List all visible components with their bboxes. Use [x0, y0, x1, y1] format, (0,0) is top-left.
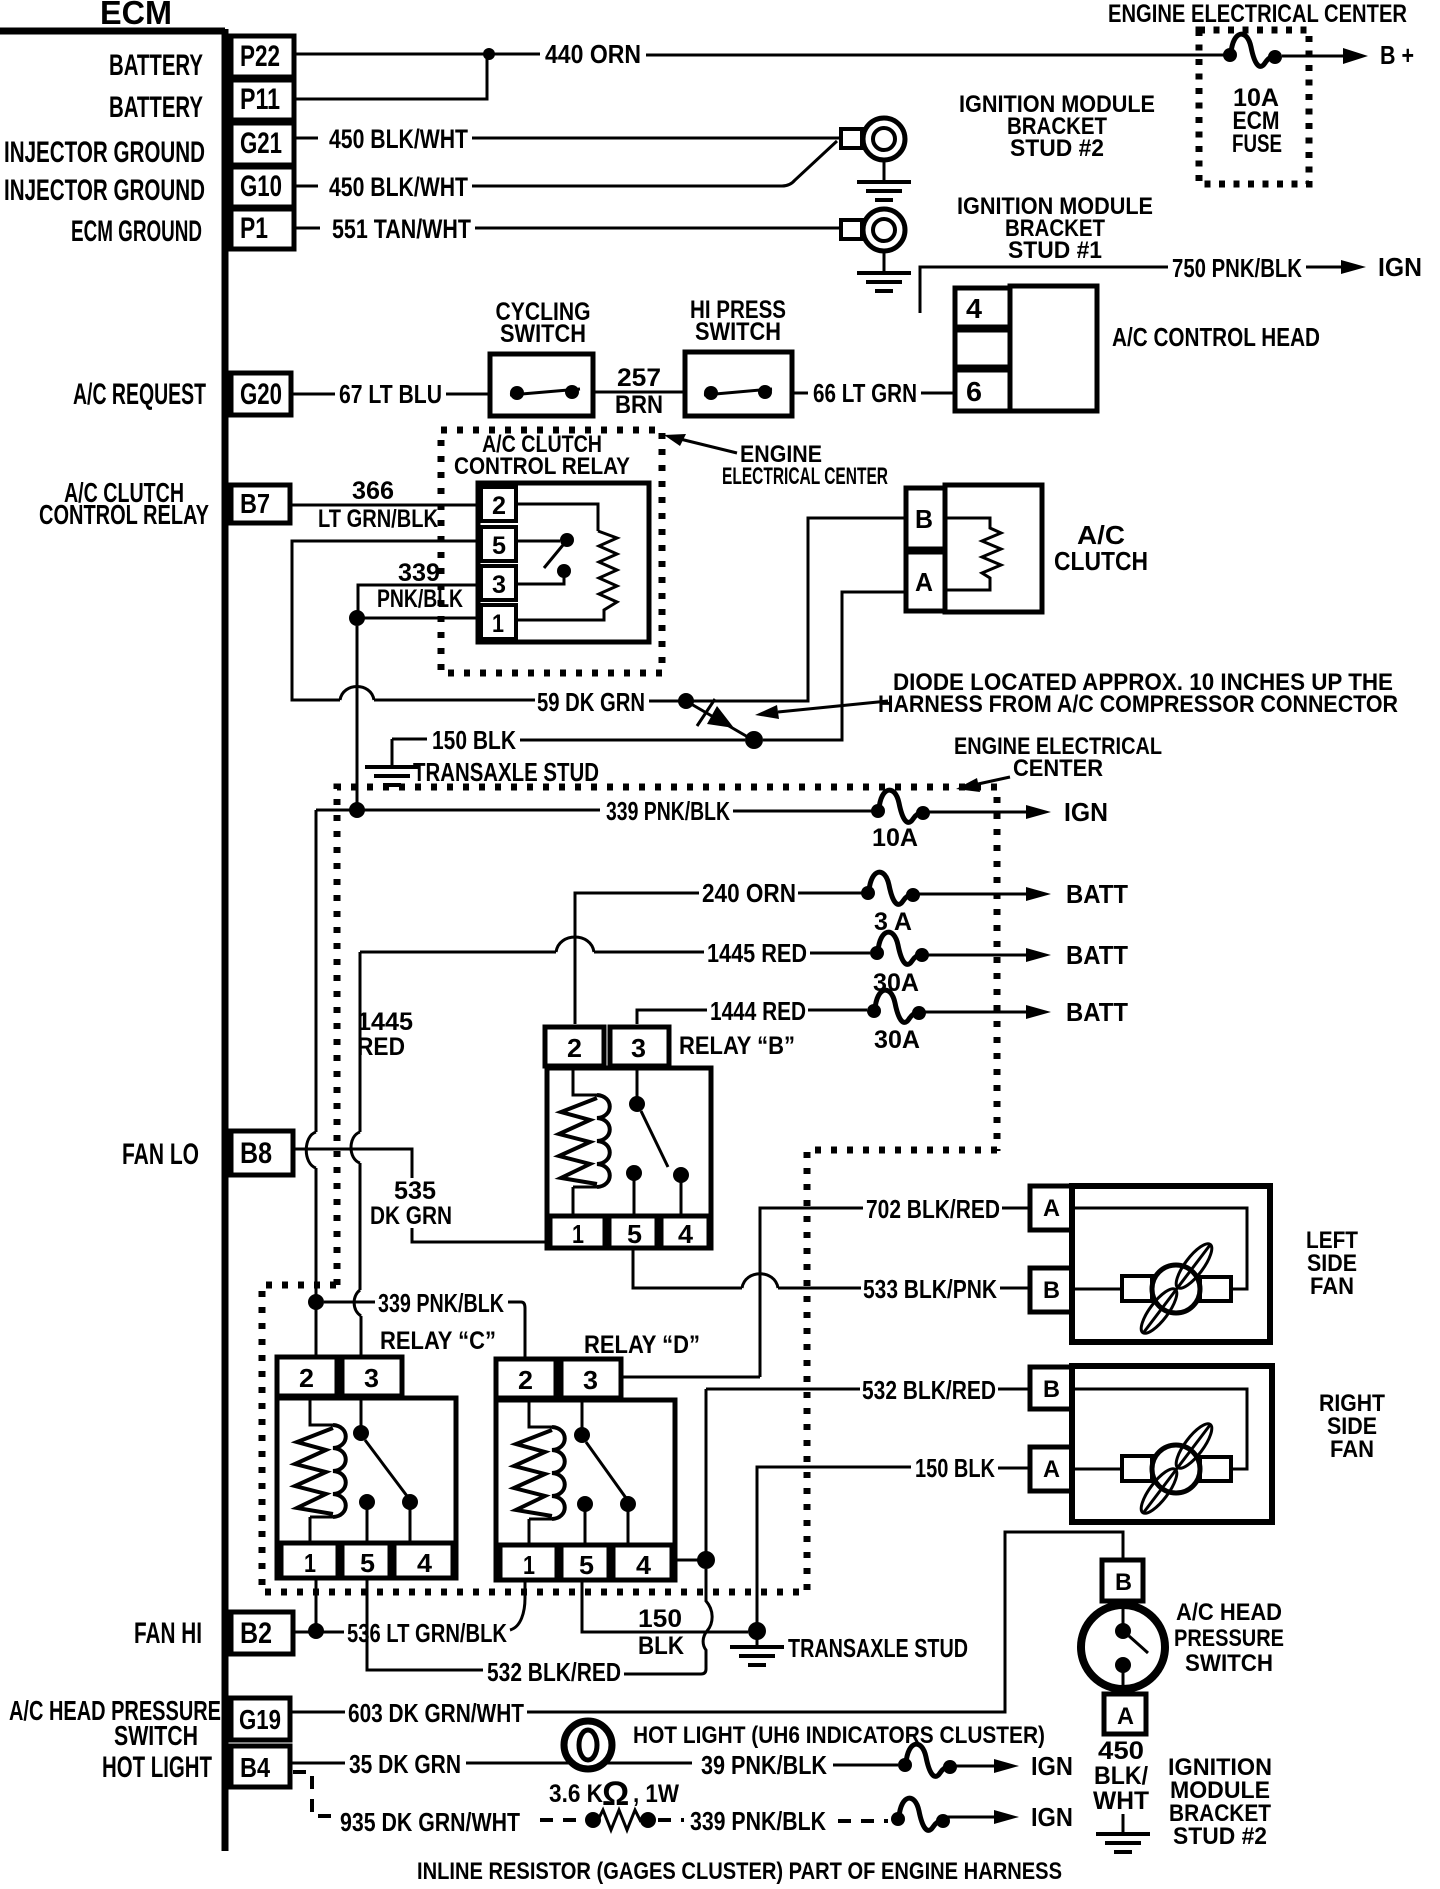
cycling switch [490, 354, 593, 416]
wire 532 BLK/RED lower (relay C terminal 5) [367, 1578, 483, 1670]
ground at stud #1 [883, 251, 886, 272]
svg-text:RELAY “D”: RELAY “D” [584, 1331, 700, 1359]
svg-text:FUSE: FUSE [1232, 130, 1282, 158]
wire B8 FAN LO to 535 DK GRN [293, 1149, 548, 1242]
node 59 DK GRN / diode [678, 693, 694, 709]
svg-text:4: 4 [678, 1219, 694, 1249]
terminal B8 [231, 1131, 293, 1175]
arrow IGN (39) [994, 1759, 1019, 1773]
wire 39 PNK/BLK to fuse [833, 1764, 898, 1767]
svg-text:A: A [1043, 1195, 1060, 1222]
svg-text:240 ORN: 240 ORN [702, 878, 796, 908]
fuse 3A (240) [861, 872, 920, 904]
relay coil (zigzag) [516, 504, 617, 620]
svg-text:CONTROL RELAY: CONTROL RELAY [39, 499, 209, 530]
arrow to dotted box corner [978, 777, 1010, 784]
svg-text:B2: B2 [240, 1617, 272, 1650]
svg-text:G20: G20 [240, 378, 282, 411]
relay switch contacts [516, 540, 560, 543]
annotation diode note arrow [778, 701, 888, 712]
wire 440 ORN from P22 [294, 54, 1227, 55]
relay C terminal 5 [342, 1543, 390, 1578]
relay D terminal 5 [561, 1545, 609, 1580]
relay B switch [636, 1066, 639, 1097]
terminal G20 [231, 373, 291, 415]
wire 339 node to relay C terminal 2 [315, 1308, 318, 1357]
svg-text:TRANSAXLE STUD: TRANSAXLE STUD [413, 757, 599, 787]
svg-text:2: 2 [567, 1033, 582, 1063]
relay B terminal 1 [550, 1216, 605, 1248]
svg-text:B4: B4 [240, 1752, 270, 1783]
fuse (339 dashed) [891, 1798, 950, 1830]
jog (1445 vertical at 339 wire) [354, 1290, 361, 1316]
svg-text:P22: P22 [240, 40, 280, 73]
ring terminal stud #1 [841, 209, 905, 251]
wire 339 vertical to relays C/D [315, 810, 318, 1296]
svg-text:INJECTOR GROUND: INJECTOR GROUND [4, 136, 205, 169]
svg-text:440 ORN: 440 ORN [545, 39, 641, 69]
wire 339 PNK/BLK to fuse [316, 810, 872, 811]
relay B body [547, 1068, 711, 1248]
fuse 30A (1445) [870, 932, 929, 964]
relay B coil [573, 1066, 597, 1216]
relay D coil [529, 1398, 552, 1545]
node transaxle stud junction [748, 1622, 766, 1640]
svg-text:5: 5 [627, 1219, 642, 1249]
wire 1444 RED [637, 1010, 867, 1024]
svg-text:BATT: BATT [1066, 940, 1128, 970]
svg-text:150 BLK: 150 BLK [432, 725, 516, 755]
relay C terminal 3 [342, 1357, 402, 1396]
fuse (39 PNK/BLK) [898, 1744, 957, 1776]
left fan body [1072, 1186, 1270, 1342]
terminal P22 [231, 36, 294, 77]
hot light lamp [564, 1721, 612, 1769]
svg-text:B: B [1043, 1277, 1060, 1304]
svg-text:A/C REQUEST: A/C REQUEST [73, 378, 206, 411]
svg-text:BATT: BATT [1066, 879, 1128, 909]
ECM connector rail (top bar + vertical) [0, 29, 225, 1851]
svg-text:, 1W: , 1W [633, 1780, 679, 1808]
wire 551 TAN/WHT from P1 [294, 227, 841, 230]
svg-text:ECM: ECM [100, 0, 172, 31]
wire fuse to IGN (339 dashed) [947, 1816, 995, 1819]
fuse 10A (339) [871, 790, 930, 822]
svg-text:1: 1 [523, 1550, 535, 1580]
wire 450 BLK/WHT from G10 [294, 141, 837, 186]
right fan motor [1122, 1419, 1231, 1518]
left fan internal wires [1072, 1208, 1247, 1289]
hop 59 DK GRN over 339 vertical [340, 687, 374, 701]
left fan connector A [1030, 1186, 1072, 1230]
svg-text:PRESSURE: PRESSURE [1174, 1625, 1284, 1652]
engine electrical center dotted box (ECM fuse) [1199, 30, 1309, 184]
arrow BATT (1445) [1026, 948, 1051, 962]
svg-text:RELAY “B”: RELAY “B” [679, 1032, 795, 1060]
svg-text:257: 257 [617, 364, 661, 392]
svg-text:4: 4 [417, 1548, 433, 1578]
svg-text:750 PNK/BLK: 750 PNK/BLK [1172, 253, 1302, 283]
svg-text:B7: B7 [240, 488, 270, 519]
A/C head pressure switch terminal A [1104, 1694, 1146, 1734]
wire 240 ORN [575, 893, 862, 1024]
A/C clutch connector terminal B [906, 488, 945, 549]
svg-text:A: A [1043, 1456, 1060, 1483]
wire 66 LT GRN [792, 392, 955, 395]
A/C clutch coil [945, 518, 1001, 590]
A/C clutch control relay dotted box [441, 430, 662, 673]
hop arc (1445 vertical at B8 wire) [351, 1132, 360, 1163]
wire relay D terminal 3 to 702 vertical [621, 1376, 760, 1379]
svg-text:150 BLK: 150 BLK [915, 1453, 995, 1483]
svg-text:CENTER: CENTER [1013, 755, 1103, 782]
svg-text:5: 5 [492, 532, 506, 560]
ground at stud #2 [883, 160, 886, 181]
svg-text:35 DK GRN: 35 DK GRN [349, 1749, 461, 1779]
svg-text:3: 3 [631, 1033, 646, 1063]
A/C control head body [1010, 286, 1097, 411]
relay terminal 5 [481, 527, 516, 561]
svg-text:SWITCH: SWITCH [500, 320, 586, 348]
A/C clutch control relay body [478, 483, 649, 642]
svg-text:FAN: FAN [1310, 1273, 1354, 1300]
terminal G10 [231, 167, 294, 207]
A/C control head middle cavity [955, 330, 1010, 367]
hop 1445 over 240 vertical [556, 937, 594, 952]
wire 150 BLK from relay D terminal 5 [582, 1580, 748, 1632]
svg-text:66 LT GRN: 66 LT GRN [813, 378, 917, 408]
wire fuse to BATT (240) [917, 893, 1026, 896]
svg-text:450: 450 [1098, 1737, 1144, 1765]
node 339 PNK/BLK junction [349, 802, 365, 818]
svg-text:450 BLK/WHT: 450 BLK/WHT [329, 124, 468, 154]
svg-text:533 BLK/PNK: 533 BLK/PNK [863, 1274, 997, 1304]
svg-text:67 LT BLU: 67 LT BLU [339, 379, 442, 409]
svg-text:5: 5 [579, 1550, 594, 1580]
svg-text:551 TAN/WHT: 551 TAN/WHT [332, 214, 471, 244]
A/C clutch body [945, 485, 1042, 612]
svg-text:FAN LO: FAN LO [122, 1138, 199, 1171]
svg-text:TRANSAXLE STUD: TRANSAXLE STUD [788, 1633, 968, 1663]
relay C body [277, 1398, 456, 1578]
svg-text:B: B [1115, 1569, 1132, 1596]
svg-text:RED: RED [357, 1033, 405, 1061]
relay B terminal 4 [661, 1216, 709, 1248]
svg-text:G10: G10 [240, 170, 282, 203]
node diode/150 BLK [745, 731, 763, 749]
svg-text:HARNESS FROM A/C COMPRESSOR CO: HARNESS FROM A/C COMPRESSOR CONNECTOR [878, 691, 1398, 718]
terminal B2 [231, 1612, 293, 1654]
relay terminal 1 [481, 605, 516, 639]
svg-text:150: 150 [638, 1605, 682, 1633]
svg-text:RELAY “C”: RELAY “C” [380, 1327, 496, 1355]
svg-text:702 BLK/RED: 702 BLK/RED [866, 1194, 1000, 1224]
svg-text:536 LT GRN/BLK: 536 LT GRN/BLK [347, 1618, 507, 1648]
svg-text:P1: P1 [240, 212, 268, 245]
ground at pressure switch [1122, 1814, 1125, 1833]
relay D terminal 4 [613, 1545, 672, 1580]
relay terminal 2 [481, 487, 516, 521]
label 535 DK GRN [368, 1177, 452, 1230]
wire terminal 5 to 59 DK GRN [292, 541, 681, 701]
relay terminal 3 [481, 566, 516, 600]
inline resistor 3.6k [540, 1810, 684, 1830]
relay D terminal 1 [500, 1545, 557, 1580]
wire 257 BRN [593, 391, 685, 394]
arrow IGN (339 dashed) [994, 1810, 1019, 1824]
svg-text:2: 2 [492, 492, 506, 520]
wire 702 BLK/RED [760, 1208, 1029, 1377]
svg-text:532 BLK/RED: 532 BLK/RED [862, 1375, 996, 1405]
svg-text:1444 RED: 1444 RED [710, 996, 806, 1026]
svg-text:P11: P11 [240, 83, 280, 116]
hop 533 over 702 vertical [742, 1274, 778, 1288]
wire fuse to BATT (1445) [926, 954, 1026, 957]
svg-text:3.6 K: 3.6 K [549, 1780, 603, 1808]
relay C switch [360, 1396, 363, 1426]
svg-text:4: 4 [636, 1550, 652, 1580]
svg-text:3: 3 [364, 1363, 379, 1393]
right fan body [1072, 1366, 1272, 1522]
hop arcs on B8 wire (339 vertical) [306, 1132, 316, 1168]
wire 339 PNK/BLK lower row [324, 1302, 525, 1357]
ring terminal stud #2 [841, 118, 905, 160]
svg-text:366: 366 [352, 477, 394, 505]
A/C head pressure switch [1081, 1601, 1165, 1694]
node 339 lower junction [308, 1294, 324, 1310]
svg-text:LT GRN/BLK: LT GRN/BLK [318, 505, 438, 533]
svg-text:ENGINE ELECTRICAL CENTER: ENGINE ELECTRICAL CENTER [1108, 0, 1407, 28]
svg-text:FAN HI: FAN HI [134, 1617, 202, 1650]
svg-text:B: B [1043, 1376, 1060, 1403]
right fan connector B [1030, 1367, 1072, 1409]
svg-text:BLK: BLK [638, 1632, 684, 1660]
wire 1445 RED vertical [360, 952, 361, 1356]
A/C control head terminal 4 [955, 288, 1010, 327]
hi press switch [685, 352, 792, 416]
svg-text:WHT: WHT [1093, 1787, 1149, 1815]
svg-text:603 DK GRN/WHT: 603 DK GRN/WHT [348, 1698, 524, 1728]
svg-text:IGN: IGN [1378, 252, 1422, 282]
svg-text:FAN: FAN [1330, 1436, 1374, 1463]
svg-text:G19: G19 [239, 1704, 281, 1735]
svg-text:STUD #1: STUD #1 [1008, 237, 1102, 264]
svg-text:6: 6 [966, 376, 982, 407]
svg-text:STUD #2: STUD #2 [1173, 1823, 1267, 1850]
svg-text:PNK/BLK: PNK/BLK [377, 585, 463, 613]
arrow BATT (1444) [1026, 1005, 1051, 1019]
terminal P1 [231, 209, 294, 249]
wire fuse to IGN (39) [954, 1765, 995, 1768]
wire 339 node down to junction [356, 626, 359, 803]
svg-text:30A: 30A [874, 1026, 920, 1054]
svg-text:CLUTCH: CLUTCH [1054, 546, 1148, 576]
relay B terminal 3 [610, 1027, 669, 1066]
wire fuse to BATT (1444) [923, 1011, 1026, 1014]
svg-text:SWITCH: SWITCH [114, 1720, 198, 1751]
svg-text:BRN: BRN [615, 391, 663, 419]
svg-text:ELECTRICAL CENTER: ELECTRICAL CENTER [722, 463, 888, 490]
wire 150 BLK (right fan A) [757, 1467, 1030, 1628]
relay D terminal 2 [496, 1359, 556, 1398]
right fan connector A [1030, 1447, 1072, 1491]
svg-text:450 BLK/WHT: 450 BLK/WHT [329, 172, 468, 202]
wire 533 BLK/PNK [633, 1248, 1029, 1288]
wire fuse to IGN [927, 811, 1026, 814]
wire 59 DK GRN to A/C clutch B [693, 518, 904, 701]
wire 532 BLK/RED (right fan B) [706, 1389, 1030, 1560]
svg-text:59 DK GRN: 59 DK GRN [537, 687, 645, 717]
left fan connector B [1030, 1268, 1072, 1312]
svg-text:935 DK GRN/WHT: 935 DK GRN/WHT [340, 1807, 520, 1837]
wire B2 FAN HI to 536 LT GRN/BLK [293, 1580, 525, 1632]
svg-text:A: A [915, 567, 933, 597]
svg-text:B +: B + [1380, 40, 1414, 70]
svg-text:1: 1 [304, 1548, 316, 1578]
wire 366 LT GRN/BLK from B7 [290, 504, 481, 507]
svg-text:BATTERY: BATTERY [109, 91, 203, 124]
wire G20 67 LT BLU [291, 393, 490, 396]
svg-text:2: 2 [299, 1363, 314, 1393]
wire 35 DK GRN to hot light [290, 1762, 692, 1765]
terminal P11 [231, 80, 294, 120]
svg-text:HOT LIGHT (UH6 INDICATORS CLUS: HOT LIGHT (UH6 INDICATORS CLUSTER) [633, 1722, 1045, 1749]
relay C terminal 4 [394, 1543, 453, 1578]
svg-text:BATTERY: BATTERY [109, 49, 203, 82]
svg-text:535: 535 [394, 1177, 436, 1205]
svg-text:339 PNK/BLK: 339 PNK/BLK [690, 1806, 826, 1836]
wire 450 BLK/WHT from G21 [294, 137, 841, 140]
transaxle stud ground (upper) [391, 739, 394, 766]
relay D body [496, 1400, 675, 1580]
svg-text:IGN: IGN [1064, 797, 1108, 827]
terminal B4 [231, 1746, 290, 1787]
svg-text:1445: 1445 [357, 1008, 413, 1036]
relay C terminal 1 [281, 1543, 338, 1578]
svg-text:339 PNK/BLK: 339 PNK/BLK [606, 796, 730, 826]
A/C head pressure switch terminal B [1102, 1560, 1143, 1601]
svg-text:532 BLK/RED: 532 BLK/RED [487, 1657, 621, 1687]
wire P11 to junction [294, 57, 487, 99]
fuse 30A (1444) [867, 990, 926, 1022]
node B2 junction [308, 1623, 324, 1639]
engine electrical center dotted outline [262, 787, 997, 1592]
terminal G19 [231, 1698, 290, 1740]
svg-text:G21: G21 [240, 127, 282, 160]
svg-text:SWITCH: SWITCH [695, 318, 781, 346]
svg-text:A/C HEAD: A/C HEAD [1176, 1599, 1282, 1626]
arrow B+ [1343, 48, 1368, 64]
svg-text:A: A [1117, 1703, 1134, 1730]
annotation arrow engine electrical center (relay) [676, 438, 737, 453]
A/C clutch connector terminal A [906, 552, 945, 611]
svg-text:IGN: IGN [1031, 1802, 1073, 1832]
node junction P22/P11 [483, 48, 495, 60]
wire node to terminal 1 [357, 617, 478, 620]
svg-text:3: 3 [492, 571, 506, 599]
svg-text:339: 339 [398, 559, 440, 587]
svg-text:HOT LIGHT: HOT LIGHT [102, 1751, 212, 1784]
dashed wire to fuse (339 dashed) [838, 1819, 888, 1823]
relay C terminal 2 [277, 1357, 337, 1396]
svg-text:1: 1 [572, 1219, 584, 1249]
svg-text:3: 3 [583, 1365, 598, 1395]
wire 750 PNK/BLK [920, 267, 1342, 313]
svg-text:A/C CONTROL HEAD: A/C CONTROL HEAD [1112, 322, 1320, 352]
relay B terminal 5 [609, 1216, 657, 1248]
wire 532 node down to lower label [624, 1569, 712, 1674]
relay D terminal 3 [561, 1359, 621, 1398]
wire 1445 RED horizontal [360, 952, 870, 953]
arrow IGN (750) [1341, 260, 1366, 274]
wire relay C terminal 1 to B2 node [315, 1578, 318, 1624]
A/C control head terminal 6 [955, 370, 1010, 411]
svg-text:BLK/: BLK/ [1094, 1762, 1148, 1790]
node 532 junction [697, 1551, 715, 1569]
wire 150 BLK [392, 592, 904, 740]
wire terminal 3 to 339 node [358, 585, 478, 612]
terminal B7 [231, 485, 290, 523]
terminal G21 [231, 123, 294, 165]
svg-text:STUD #2: STUD #2 [1010, 135, 1104, 162]
wire relay D terminal 4 to node [675, 1559, 700, 1562]
svg-text:5: 5 [360, 1548, 375, 1578]
diode 59 DK GRN to 150 BLK [686, 699, 753, 740]
svg-text:2: 2 [518, 1365, 533, 1395]
relay D switch [581, 1398, 584, 1428]
svg-text:BATT: BATT [1066, 997, 1128, 1027]
node 339 PNK/BLK (relay) [349, 610, 365, 626]
svg-text:SWITCH: SWITCH [1185, 1650, 1273, 1677]
relay B terminal 2 [545, 1027, 604, 1066]
wire 603 DK GRN/WHT [290, 1532, 1123, 1712]
relay C coil [310, 1396, 333, 1543]
left fan motor [1122, 1239, 1231, 1338]
svg-text:10A: 10A [872, 824, 918, 852]
svg-text:1: 1 [492, 610, 504, 638]
svg-text:DK GRN: DK GRN [370, 1202, 452, 1230]
svg-text:39 PNK/BLK: 39 PNK/BLK [701, 1750, 827, 1780]
svg-text:INLINE RESISTOR (GAGES CLUSTER: INLINE RESISTOR (GAGES CLUSTER) PART OF … [417, 1858, 1062, 1884]
svg-text:IGN: IGN [1031, 1751, 1073, 1781]
svg-text:4: 4 [966, 293, 982, 324]
svg-text:1445 RED: 1445 RED [707, 938, 807, 968]
svg-text:CONTROL RELAY: CONTROL RELAY [454, 453, 630, 480]
svg-text:B8: B8 [240, 1137, 272, 1170]
svg-text:B: B [915, 504, 933, 534]
arrow IGN (339) [1026, 805, 1051, 819]
right fan internal wires [1072, 1389, 1247, 1469]
fuse 10A ECM [1223, 34, 1282, 66]
arrow BATT (240) [1026, 887, 1051, 901]
svg-text:339 PNK/BLK: 339 PNK/BLK [378, 1288, 504, 1318]
svg-text:INJECTOR GROUND: INJECTOR GROUND [4, 174, 205, 207]
svg-text:ECM GROUND: ECM GROUND [71, 215, 202, 248]
dashed wire B4 to 935 DK GRN/WHT [293, 1772, 338, 1816]
transaxle stud ground (lower) [756, 1636, 759, 1646]
wire fuse to B+ [1282, 55, 1344, 58]
svg-text:Ω: Ω [602, 1775, 629, 1813]
